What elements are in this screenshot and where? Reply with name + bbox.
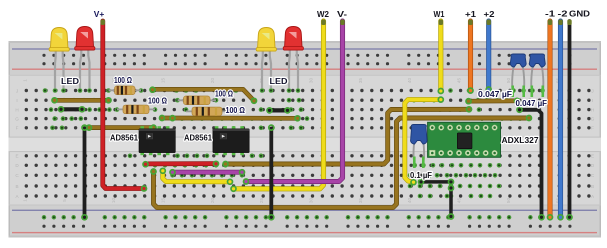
breadboard labels (15, 78, 595, 204)
capacitor C3 0.1uF (411, 125, 428, 169)
wire blue -2 feed (558, 20, 563, 220)
svg-text:AD8561: AD8561 (184, 134, 213, 143)
svg-text:50: 50 (506, 78, 511, 84)
svg-text:B: B (591, 184, 594, 189)
wire black F7 to rail (82, 125, 87, 220)
svg-text:H: H (591, 107, 594, 112)
op-amp U1 AD8561 (139, 126, 175, 155)
svg-text:G: G (15, 116, 19, 121)
label V- (337, 9, 347, 19)
svg-text:ADXL327: ADXL327 (502, 136, 540, 145)
label +1 (465, 9, 476, 19)
svg-text:+2: +2 (484, 9, 495, 19)
LED2 red legs (80, 50, 90, 89)
svg-text:100 Ω: 100 Ω (148, 97, 168, 106)
svg-text:H: H (15, 107, 18, 112)
wire orange +1 feed (468, 20, 473, 94)
wire orange -1 feed (548, 20, 553, 220)
svg-text:LED: LED (61, 77, 79, 86)
svg-text:+1: +1 (465, 9, 476, 19)
label +2 (484, 9, 495, 19)
svg-text:E: E (15, 154, 18, 159)
svg-text:AD8561: AD8561 (110, 134, 139, 143)
wire brown row-F jumper (87, 125, 157, 130)
wire black H52 elbow to rail (517, 107, 544, 220)
label W1 (434, 9, 445, 19)
svg-text:GND: GND (569, 9, 590, 19)
svg-text:100 Ω: 100 Ω (114, 76, 132, 85)
wire black row-H jumper left (59, 107, 85, 112)
svg-text:40: 40 (407, 78, 412, 84)
LED2 red (75, 27, 95, 51)
capacitor C2 0.047uF (529, 54, 545, 97)
label 100ohm R1 (114, 76, 132, 85)
svg-text:LED: LED (270, 77, 288, 86)
wire black B44 to rail (449, 186, 454, 220)
label LED left (61, 77, 79, 86)
svg-text:-2: -2 (558, 9, 568, 19)
label 0.047uF C1 (478, 90, 512, 99)
wire brown row-I jumper right (466, 98, 520, 103)
resistor R2 100ohm (117, 105, 155, 114)
svg-text:5: 5 (62, 199, 67, 202)
connected holes (green) (42, 88, 572, 219)
label 100ohm R4 (226, 106, 246, 115)
resistor R1 100ohm (109, 86, 142, 95)
label 0.1uF C3 (410, 171, 432, 180)
svg-text:10: 10 (111, 198, 116, 204)
svg-text:45: 45 (457, 198, 462, 204)
svg-text:15: 15 (161, 78, 166, 84)
wire red row-D jumper (143, 161, 219, 166)
svg-text:V+: V+ (94, 9, 105, 19)
svg-text:F: F (591, 126, 594, 131)
svg-text:I: I (592, 98, 593, 103)
wire blue +2 feed (486, 20, 491, 93)
wire brown row-I jumper left (52, 98, 111, 103)
wire yellow W2 feed (231, 20, 326, 192)
svg-text:B: B (15, 184, 18, 189)
label -1 (545, 9, 555, 19)
svg-text:1: 1 (22, 79, 27, 82)
svg-text:50: 50 (506, 198, 511, 204)
wire purple V- feed (244, 20, 345, 185)
svg-text:40: 40 (407, 198, 412, 204)
wire yellow W1 feed (438, 20, 443, 94)
wire black F26 to rail (269, 125, 274, 220)
LED1 yellow (49, 28, 69, 52)
svg-text:35: 35 (358, 78, 363, 84)
LED1 yellow legs (55, 51, 64, 89)
wire black row-C jumper (419, 179, 454, 184)
svg-text:20: 20 (210, 198, 215, 204)
capacitor C1 0.047uF (510, 54, 526, 97)
svg-text:V-: V- (337, 9, 347, 19)
label -2 (558, 9, 568, 19)
svg-text:100 Ω: 100 Ω (215, 90, 233, 99)
label GND (569, 9, 590, 19)
wire yellow mid jumper (160, 168, 232, 184)
svg-text:1: 1 (22, 199, 27, 202)
svg-text:0.047 µF: 0.047 µF (516, 99, 548, 108)
breadboard hole grid (25, 54, 591, 228)
svg-text:35: 35 (358, 198, 363, 204)
resistor R4 100ohm (186, 107, 228, 116)
wire brown B (C14 around bottom to H52) (151, 116, 532, 208)
svg-text:45: 45 (457, 78, 462, 84)
svg-text:25: 25 (259, 198, 264, 204)
svg-text:100 Ω: 100 Ω (226, 106, 246, 115)
svg-text:30: 30 (309, 78, 314, 84)
svg-text:0.047 µF: 0.047 µF (478, 90, 512, 99)
svg-text:15: 15 (161, 198, 166, 204)
wire black row-H jumper mid (267, 108, 290, 113)
svg-text:W1: W1 (434, 9, 445, 19)
svg-text:0.1 µF: 0.1 µF (410, 171, 432, 180)
label AD8561 U2 (184, 134, 213, 143)
svg-text:J: J (16, 88, 18, 93)
label W2 (317, 9, 329, 19)
svg-text:E: E (591, 154, 594, 159)
svg-text:20: 20 (210, 78, 215, 84)
LED3 yellow (256, 28, 276, 52)
op-amp U2 AD8561 (213, 126, 249, 155)
accelerometer module ADXL327 (428, 122, 501, 157)
svg-text:G: G (591, 116, 595, 121)
svg-text:-1: -1 (545, 9, 555, 19)
wire brown row-J long (150, 87, 257, 103)
label 0.047uF C2 (516, 99, 548, 108)
label 100ohm R2 (148, 97, 168, 106)
LED4 red legs (289, 50, 298, 89)
svg-text:30: 30 (309, 198, 314, 204)
svg-text:J: J (591, 88, 593, 93)
resistor R3 100ohm (178, 96, 217, 105)
wire brown A (D23 to H46) (223, 107, 472, 167)
wire red V+ feed (101, 20, 147, 192)
svg-text:F: F (16, 126, 19, 131)
svg-text:W2: W2 (317, 9, 329, 19)
wire purple row-C jumper (170, 170, 245, 175)
LED3 yellow legs (262, 51, 271, 89)
wire brown row-G long (160, 116, 301, 121)
breadboard base (9, 41, 602, 238)
label 100ohm R3 (215, 90, 233, 99)
wire black GND feed (567, 20, 572, 220)
LED4 red (283, 27, 303, 51)
label V+ (94, 9, 105, 19)
label LED right (270, 77, 288, 86)
label AD8561 U1 (110, 134, 139, 143)
wire yellow W1 branch (405, 97, 444, 185)
label ADXL327 (502, 136, 540, 145)
svg-text:I: I (16, 98, 17, 103)
